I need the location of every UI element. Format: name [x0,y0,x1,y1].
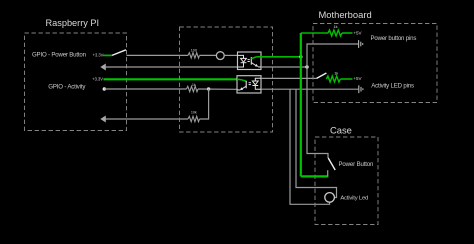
node GPIO-Activity start [103,87,106,90]
svg-text:GPIO - Activity: GPIO - Activity [48,84,86,91]
wire case LED feed A (to LED right side) [296,89,337,197]
svg-text:1k: 1k [334,71,338,75]
U1 LED anode lead [238,55,244,58]
wire green bus bottom to case switch (green) [301,175,329,177]
wire GPIO activity to resistor 1k [104,88,186,90]
wire U1 emitter to gnd node [261,66,307,68]
svg-text:10k: 10k [191,111,197,115]
U1 LED triangle [241,58,247,62]
U2 transistor base bar [245,81,247,89]
wire U1 collector to green bus (green) [261,56,301,58]
U1 transistor base bar [250,57,252,65]
indicator circle (connector) [216,52,224,60]
wire row A to resistor 100 [127,54,189,56]
resistor 100 [188,49,200,59]
optocoupler U2 [237,76,261,93]
wire GPIO power button return (arrow into RPi) [100,64,237,71]
wire 1k to +5V (green) [342,32,353,34]
U1 coupling dashes [248,59,250,61]
ground activity LED pins [359,85,363,93]
wire gnd node up to power button pins ground [307,44,358,67]
U2 LED cathode lead [255,86,261,90]
node green bus junction [299,55,302,58]
wire case LED feed B (to LED bottom) [290,89,330,204]
wire U2 anode to motherboard switch [261,77,317,79]
resistor 10k [188,111,200,122]
svg-text:1k: 1k [192,83,196,87]
wire green bus top to motherboard resistor [301,32,328,34]
ground power button pins [359,40,363,48]
U2 LED triangle [252,81,258,85]
Motherboard box [313,9,437,103]
wire 10k return (arrow into RPi) [100,116,188,123]
wire green bus vertical [300,33,302,176]
svg-text:Raspberry PI: Raspberry PI [46,18,100,28]
switch S1 lever (RPi power button GPIO) [112,50,126,56]
svg-text:Activity Led: Activity Led [340,196,368,202]
switch S2 lever (activity LED pins) [317,73,327,78]
wire 1k to +5V (green) [340,78,352,80]
U1 emitter with arrow [251,63,256,66]
U2 emitter with arrow [242,86,247,89]
U2 coupling dashes [249,82,251,84]
switch S3 case power button lever [328,158,335,170]
resistor 1k (activity LED pins, green) [326,71,340,82]
svg-text:+5V: +5V [353,31,361,36]
wire +3.3V stub (green) [103,54,112,56]
wire U2 cathode to activity ground [261,88,358,90]
svg-text:100: 100 [191,49,197,53]
wire resistor 100 to indicator circle [200,54,217,56]
U2 LED cathode bar [252,85,258,87]
svg-text:+3.3V: +3.3V [93,53,104,58]
resistor 1k (power button pins, green) [328,25,342,36]
svg-text:+3.3V: +3.3V [92,77,103,82]
U1 LED cathode bar [241,62,247,64]
U1 LED cathode lead [238,63,244,67]
wire 1k to node J1 [198,88,237,90]
resistor 1k (RPi activity) [187,83,199,92]
Case box [315,125,378,225]
wire gnd node down to case power button [307,67,328,158]
node gnd junction [305,65,308,68]
LED case activity [325,193,335,203]
wire node J1 down to 10k [200,89,209,119]
svg-text:Power Button: Power Button [339,161,374,168]
svg-text:1k: 1k [333,25,337,29]
U1 collector (green) [251,57,261,59]
svg-text:Case: Case [330,125,352,136]
U2 collector (green) [237,79,246,81]
Raspberry PI box [25,18,127,131]
components box (middle, dashed) [180,27,273,132]
wire case switch bottom contact [327,170,329,176]
svg-text:Activity LED pins: Activity LED pins [371,82,414,89]
node J1 junction [207,87,210,90]
svg-text:Power button pins: Power button pins [371,35,417,42]
svg-text:+5V: +5V [353,76,361,81]
optocoupler U1 [238,52,262,70]
U2 LED anode lead [255,78,261,81]
wire +3.3V activity (thick green) [104,78,238,80]
wire circle to opto U1 [224,54,237,56]
svg-text:GPIO - Power Button: GPIO - Power Button [32,52,86,59]
svg-text:Motherboard: Motherboard [319,9,372,20]
